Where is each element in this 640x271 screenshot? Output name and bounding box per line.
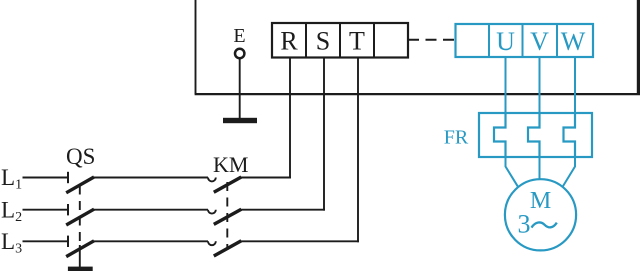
wire KM3 to T [241,240,359,242]
QS pole 3 fixed contact [67,236,69,247]
svg-text:3: 3 [518,209,531,238]
terminal block RST divider 3 [373,23,375,58]
wire W down [574,57,576,114]
motor M circle [505,179,576,250]
KM pole 1 contact arc [208,178,216,182]
svg-text:U: U [496,27,515,56]
thermal relay FR box [479,113,592,157]
svg-text:R: R [280,27,298,56]
KM pole 2 blade [214,209,242,224]
svg-text:QS: QS [66,144,95,169]
wire KM1 to R [241,177,291,179]
svg-text:W: W [561,27,586,56]
terminal block RST divider 1 [305,23,307,58]
wire R down [289,58,291,179]
motor lead left [506,157,518,186]
terminal E circle [235,49,244,58]
terminal block UVW divider 1 [488,24,490,57]
wire L3 in [23,240,68,242]
terminal block UVW divider 2 [522,24,524,57]
QS pole 1 blade [66,177,94,193]
wire L1 in [23,177,68,179]
wire E to ground [239,58,241,119]
QS pole 2 blade [66,209,94,225]
motor lead middle [539,157,541,179]
svg-text:V: V [530,27,549,56]
svg-text:KM: KM [213,152,248,177]
dashed link inverter to motor unit [408,39,455,41]
KM linkage dashed [226,182,228,250]
wire QS3 to KM3 [94,240,209,242]
KM pole 3 contact arc [208,241,216,245]
svg-text:L1: L1 [1,165,22,193]
svg-text:FR: FR [444,127,469,149]
svg-text:L2: L2 [1,197,22,225]
terminal block RST outline [272,23,408,58]
terminal block UVW outline [456,24,594,57]
QS pole 3 blade [66,241,94,257]
FR heater element 2 [528,113,540,157]
FR heater element 1 [494,113,506,157]
svg-text:S: S [316,27,330,56]
QS pole 1 fixed contact [67,172,69,183]
KM pole 2 contact arc [208,210,216,214]
QS earth wire [79,245,81,267]
motor lead right [563,157,575,186]
svg-text:M: M [530,188,551,214]
svg-text:L3: L3 [1,229,22,257]
QS pole 2 fixed contact [67,204,69,215]
inverter enclosure left edge [195,0,197,94]
ground (E) [223,118,257,123]
svg-text:E: E [233,25,245,47]
wire S down [323,58,325,211]
wire KM2 to S [241,209,325,211]
inverter enclosure bottom edge [195,93,640,95]
QS linkage dashed [79,186,81,246]
svg-text:T: T [349,27,365,56]
terminal block RST divider 2 [339,23,341,58]
wire T down [357,58,359,243]
FR heater element 3 [564,113,576,157]
motor label tilde [532,222,557,227]
wire L2 in [23,209,68,211]
terminal block UVW divider 3 [556,24,558,57]
wire QS1 to KM1 [94,177,209,179]
wire U down [505,57,507,114]
wire V down [539,57,541,114]
inverter enclosure right edge [637,0,640,95]
ground (QS) [68,267,93,271]
KM pole 3 blade [214,241,242,256]
KM pole 1 blade [214,177,242,192]
wire QS2 to KM2 [94,209,209,211]
